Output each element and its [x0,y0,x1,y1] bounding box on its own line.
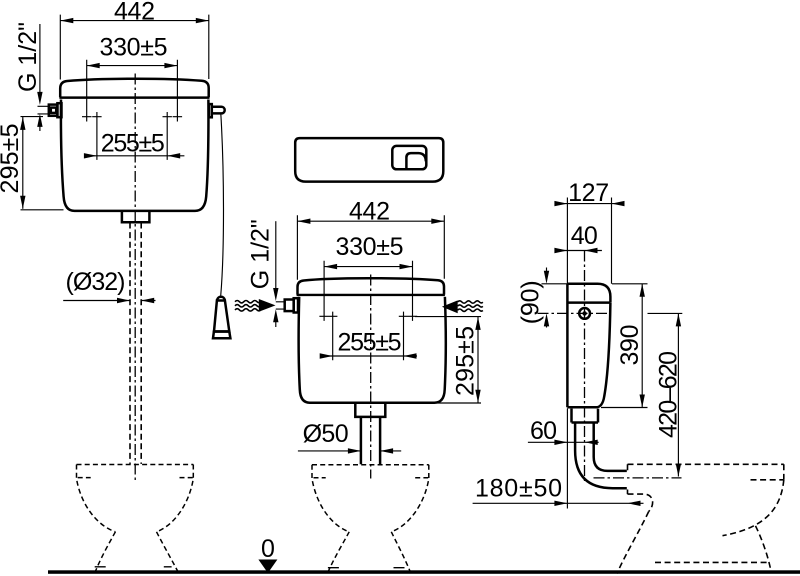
svg-text:255±5: 255±5 [101,130,165,158]
svg-text:442: 442 [114,0,155,26]
svg-text:G 1/2": G 1/2" [14,22,42,92]
svg-text:0: 0 [261,535,275,563]
svg-text:255±5: 255±5 [338,329,402,357]
svg-text:G 1/2": G 1/2" [246,219,274,289]
svg-text:Ø50: Ø50 [303,420,349,448]
svg-text:60: 60 [530,417,557,445]
svg-text:127: 127 [568,179,609,207]
svg-text:330±5: 330±5 [100,33,168,61]
svg-text:180±50: 180±50 [475,475,562,503]
svg-text:40: 40 [571,222,598,250]
svg-text:295±5: 295±5 [452,326,480,396]
svg-text:295±5: 295±5 [0,124,24,194]
svg-text:(90): (90) [517,280,545,324]
svg-text:330±5: 330±5 [336,233,404,261]
svg-text:390: 390 [616,325,644,366]
svg-text:(Ø32): (Ø32) [66,268,126,296]
